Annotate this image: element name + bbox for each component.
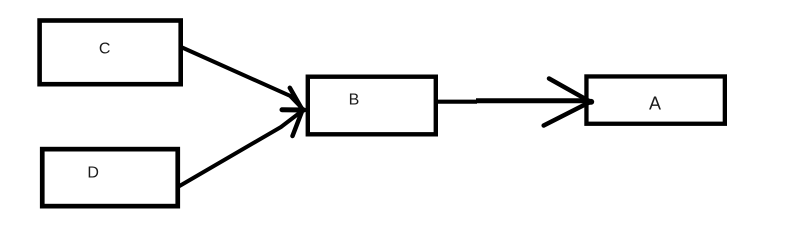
label A: [649, 94, 661, 114]
svg-text:D: D: [87, 165, 99, 182]
wire D to B: [180, 111, 303, 186]
label B: [349, 92, 360, 109]
box D: [42, 149, 178, 206]
box B: [308, 77, 436, 135]
label C: [99, 41, 111, 58]
arrowhead at A upper barb: [549, 79, 591, 102]
box C: [40, 21, 181, 85]
arrowhead at A lower barb: [544, 102, 591, 126]
box A: [586, 76, 724, 123]
svg-text:A: A: [649, 94, 661, 114]
arrowhead at B upper barb: [290, 88, 303, 110]
wire B to A: [438, 101, 589, 102]
label D: [87, 165, 99, 182]
arrowhead at A tip blob: [588, 99, 591, 105]
wire C to B: [181, 47, 303, 109]
svg-text:C: C: [99, 41, 111, 58]
arrowhead at B tail stub: [282, 107, 304, 112]
arrowhead at B lower barb: [293, 110, 303, 136]
svg-text:B: B: [349, 92, 360, 109]
